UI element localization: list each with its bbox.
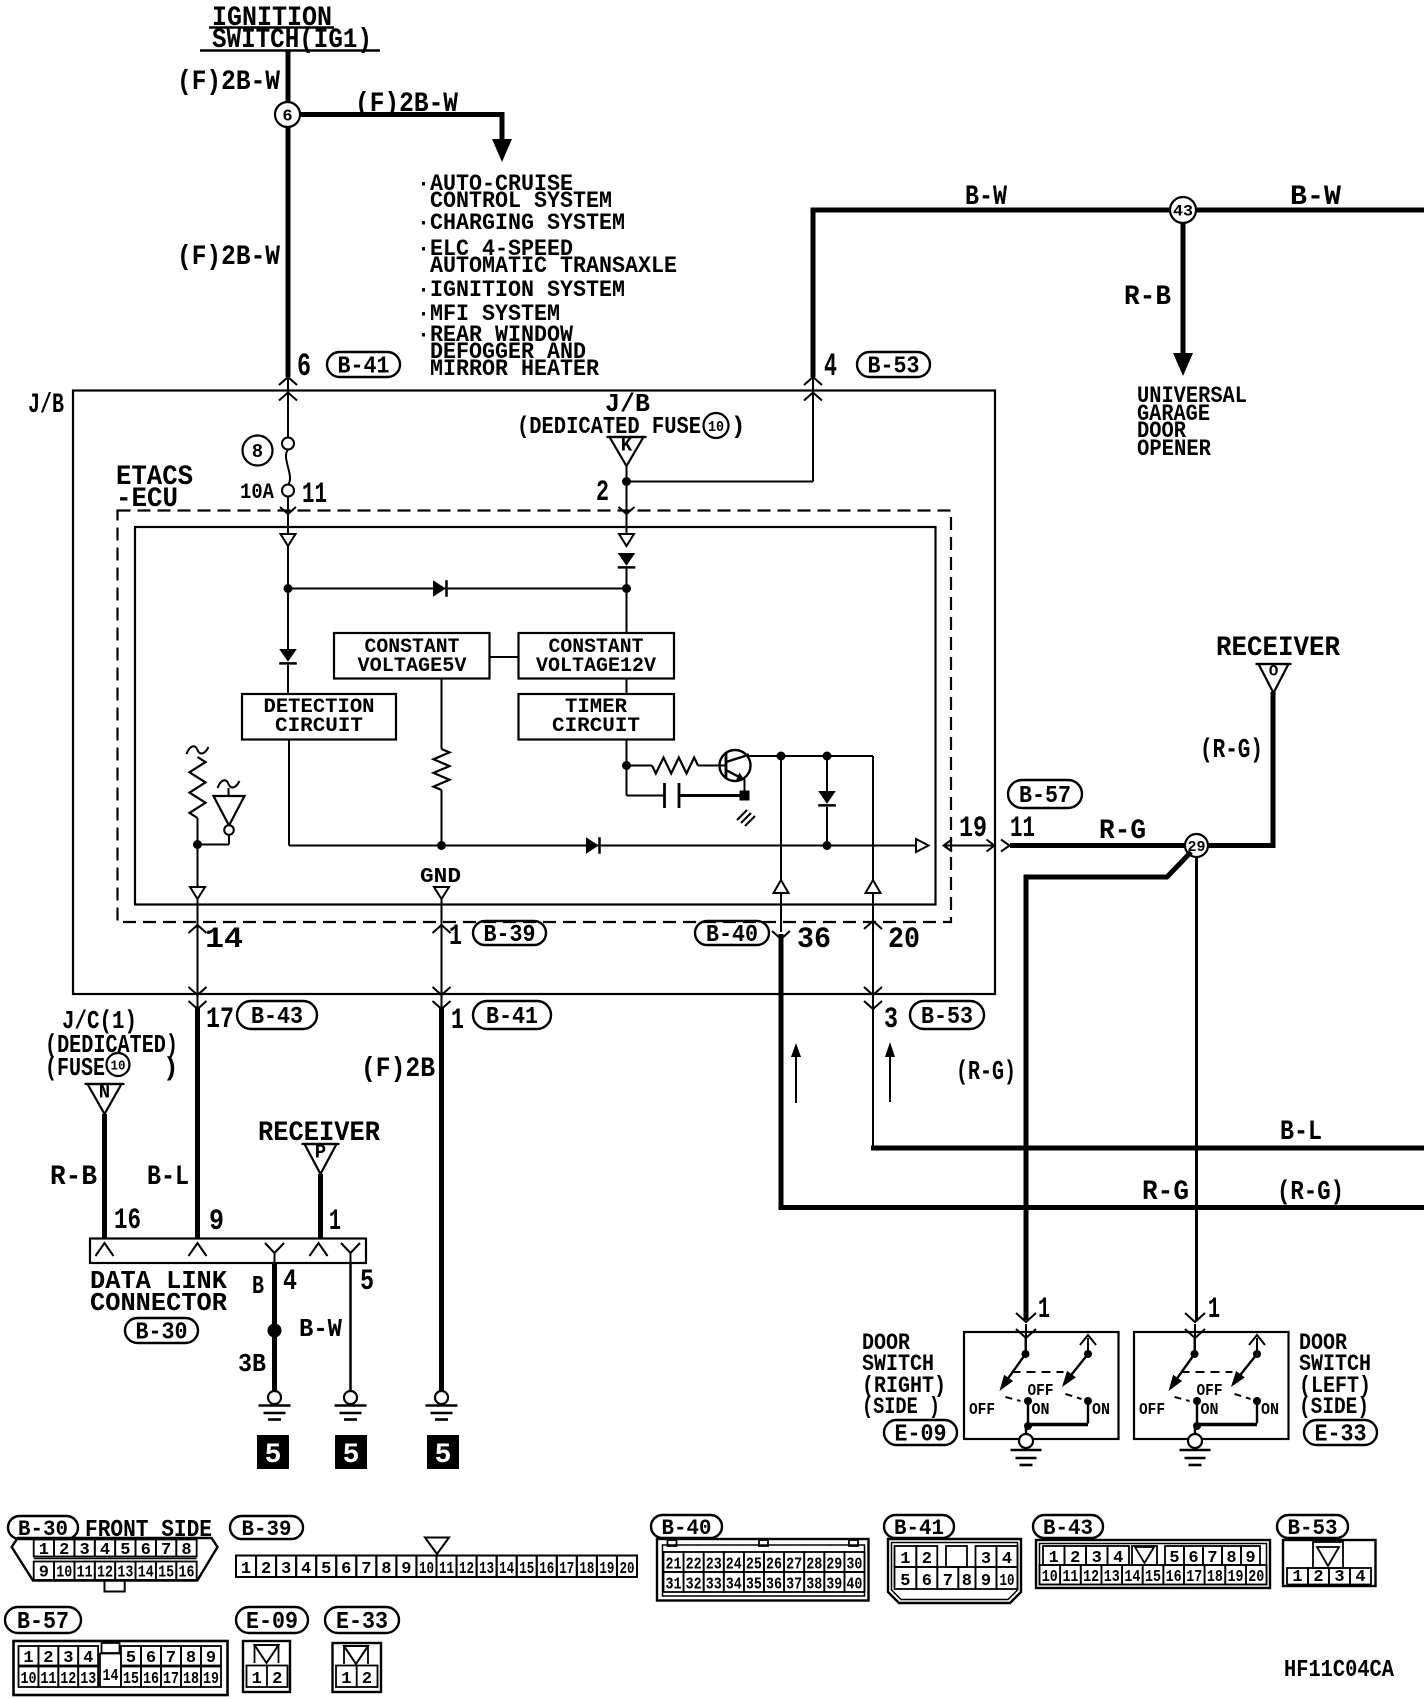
label J/B [28, 390, 64, 421]
svg-text:(F)2B-W: (F)2B-W [355, 89, 458, 120]
svg-text:CONNECTOR: CONNECTOR [90, 1288, 227, 1318]
svg-text:5: 5 [321, 1560, 331, 1579]
svg-text:P: P [315, 1142, 326, 1164]
wire Q1 collector rail [747, 755, 873, 757]
flow arrow left [791, 1043, 801, 1103]
svg-text:2: 2 [43, 1649, 53, 1668]
svg-text:12: 12 [60, 1670, 76, 1689]
svg-text:19: 19 [599, 1560, 614, 1579]
flow arrow right [885, 1042, 895, 1102]
resistor R3 [652, 758, 698, 774]
wire capacitor to emitter node [679, 794, 745, 797]
svg-text:20: 20 [619, 1560, 634, 1579]
wire node29 to receiver [1208, 692, 1276, 848]
svg-text:35: 35 [746, 1576, 762, 1595]
label DOOR SWITCH RIGHT [862, 1330, 946, 1420]
svg-text:7: 7 [166, 1649, 176, 1668]
ground reference 5 right [427, 1435, 459, 1471]
wire Q1 emitter down [744, 779, 746, 796]
diode D4 on bus [586, 837, 600, 854]
wire D5 to bus [826, 807, 828, 846]
svg-text:10: 10 [708, 419, 724, 436]
wire R-G to node 29 [1010, 843, 1185, 848]
svg-text:1: 1 [329, 1205, 341, 1239]
wire B-L corner [872, 1146, 874, 1150]
wire to comparator [228, 788, 230, 796]
coil mark left [187, 746, 209, 754]
svg-text:10: 10 [1042, 1568, 1058, 1587]
arrow R-B [1173, 353, 1193, 376]
svg-text:10A: 10A [240, 480, 275, 505]
node bus-D5 junction [823, 841, 832, 850]
label 10A [240, 480, 275, 505]
node C junction [193, 840, 202, 849]
wire fuse to ECU pin11 [280, 497, 296, 535]
svg-text:VOLTAGE5V: VOLTAGE5V [358, 655, 467, 678]
label R-B left [50, 1162, 97, 1193]
label RECEIVER bottom [258, 1118, 380, 1149]
svg-text:18: 18 [1207, 1568, 1223, 1587]
svg-text:1: 1 [39, 1541, 49, 1560]
svg-text:4: 4 [283, 1265, 297, 1299]
node fuse K junction [622, 477, 631, 486]
svg-text:9: 9 [39, 1564, 49, 1583]
block TIMER CIRCUIT [519, 694, 675, 740]
svg-text:10: 10 [111, 1058, 126, 1074]
svg-text:(F)2B: (F)2B [361, 1054, 435, 1085]
svg-text:B-57: B-57 [1019, 783, 1071, 810]
wire receiver to DLC pin1 [318, 1174, 323, 1238]
svg-text:(R-G): (R-G) [1277, 1178, 1344, 1208]
svg-text:AUTOMATIC TRANSAXLE: AUTOMATIC TRANSAXLE [430, 253, 677, 279]
svg-text:5: 5 [343, 1440, 360, 1471]
svg-text:5: 5 [900, 1572, 910, 1591]
ETACS-ECU dashed box [118, 511, 952, 923]
svg-text:1: 1 [451, 1004, 464, 1038]
svg-text:14: 14 [1124, 1568, 1140, 1587]
svg-text:14: 14 [499, 1560, 514, 1579]
svg-text:1: 1 [1292, 1568, 1302, 1587]
svg-text:ON: ON [1092, 1401, 1110, 1420]
node D junction [622, 761, 631, 770]
svg-text:2: 2 [596, 476, 609, 510]
capacitor C1 [665, 783, 680, 808]
svg-text:15: 15 [123, 1670, 139, 1689]
svg-text:B-W: B-W [299, 1314, 342, 1344]
connector ref B-43 mid [237, 1001, 317, 1031]
pin 6 entry marks [279, 377, 297, 401]
wire B-W horizontal [811, 208, 1424, 213]
svg-text:12: 12 [1083, 1568, 1099, 1587]
label IGNITION SWITCH(IG1) [200, 3, 380, 56]
node 43 splice [1170, 197, 1196, 223]
label pin 1 B-41 [451, 1004, 464, 1038]
ground dlc pin5 [335, 1391, 367, 1420]
connector pinout B-53 [1283, 1540, 1376, 1587]
terminal pin11 internal [281, 534, 296, 546]
pin 4 entry marks [804, 377, 822, 401]
svg-text:10: 10 [21, 1670, 37, 1689]
wire pin6 to fuse [287, 390, 289, 438]
svg-text:5: 5 [126, 1649, 136, 1668]
connector pinout B-40 [657, 1539, 869, 1601]
label R-B [1124, 282, 1171, 313]
svg-text:B-W: B-W [1290, 182, 1341, 213]
diode D1 left-to-right [433, 580, 447, 597]
coil mark comparator [218, 780, 240, 788]
wire dlc pin4 to ground [272, 1263, 277, 1392]
diode D5 down [818, 791, 836, 805]
label diagram code HF11C04CA [1284, 1657, 1395, 1684]
label (F)2B [361, 1054, 435, 1085]
svg-text:33: 33 [706, 1576, 722, 1595]
svg-text:B-L: B-L [147, 1162, 189, 1193]
wire node C to pin14 terminal [197, 845, 199, 888]
svg-text:9: 9 [206, 1649, 216, 1668]
wire timer to node D [626, 740, 628, 766]
svg-text:17: 17 [1186, 1568, 1202, 1587]
svg-text:OPENER: OPENER [1137, 436, 1211, 462]
connector pinout B-30 [12, 1538, 218, 1592]
label pin 6 [297, 348, 311, 385]
svg-text:31: 31 [666, 1576, 682, 1595]
wire B-L to data link [195, 1008, 200, 1238]
svg-text:2: 2 [362, 1670, 372, 1689]
wire D3 to node B [626, 568, 628, 589]
svg-text:OFF: OFF [969, 1401, 995, 1420]
svg-text:B: B [252, 1271, 264, 1301]
wire node A to node B [288, 588, 627, 590]
svg-text:36: 36 [797, 923, 831, 957]
svg-text:14: 14 [138, 1564, 154, 1583]
svg-text:11: 11 [77, 1564, 93, 1583]
pin3 B-53 exit marks [864, 987, 882, 1009]
svg-text:43: 43 [1173, 203, 1193, 221]
svg-text:6: 6 [141, 1541, 151, 1560]
connector pinout B-57 [14, 1641, 228, 1695]
svg-text:2: 2 [59, 1541, 69, 1560]
junction block J/B box [73, 391, 995, 995]
label pin 11 B-57 [1010, 812, 1035, 846]
label R-G vertical wire [1142, 1177, 1189, 1208]
svg-text:17: 17 [206, 1003, 234, 1037]
svg-text:19: 19 [959, 812, 987, 846]
svg-text:11: 11 [302, 478, 327, 512]
connector ref E-09 bottom [236, 1607, 308, 1636]
svg-text:11: 11 [40, 1670, 56, 1689]
node 29 splice [1185, 834, 1208, 857]
wire R-G horizontal [779, 1205, 1424, 1210]
label DATA LINK CONNECTOR [90, 1266, 227, 1318]
label systems list [417, 171, 677, 382]
svg-text:13: 13 [1104, 1568, 1120, 1587]
dlc pin16 terminal [96, 1243, 114, 1256]
svg-text:OFF: OFF [1028, 1382, 1054, 1401]
label UNIVERSAL GARAGE DOOR OPENER [1137, 383, 1247, 462]
arrow to systems list [492, 139, 512, 162]
label B-L left [147, 1162, 189, 1193]
wire door switch right entry marks [1016, 1313, 1036, 1354]
svg-text:(F)2B-W: (F)2B-W [177, 67, 280, 98]
svg-text:B-40: B-40 [706, 922, 758, 949]
wire comparator to node C [198, 835, 230, 845]
wire branch to systems [300, 112, 504, 142]
svg-text:16: 16 [143, 1670, 159, 1689]
label fuse circled 8 [243, 436, 273, 466]
svg-text:16: 16 [178, 1564, 194, 1583]
svg-text:B-L: B-L [1280, 1117, 1322, 1148]
svg-text:CIRCUIT: CIRCUIT [275, 715, 363, 738]
resistor R2 [434, 749, 450, 790]
svg-text:·CHARGING SYSTEM: ·CHARGING SYSTEM [417, 210, 625, 236]
svg-text:10: 10 [419, 1560, 434, 1579]
svg-text:11: 11 [1062, 1568, 1078, 1587]
svg-text:(SIDE): (SIDE) [1299, 1394, 1369, 1420]
svg-text:3: 3 [281, 1560, 291, 1579]
svg-text:B-41: B-41 [486, 1004, 538, 1031]
svg-text:6: 6 [146, 1649, 156, 1668]
svg-text:ON: ON [1261, 1401, 1279, 1420]
svg-text:20: 20 [1248, 1568, 1264, 1587]
wire pin11 to node A [287, 546, 289, 589]
label pin 1 right door [1038, 1293, 1050, 1327]
terminal GND internal [434, 887, 449, 899]
svg-text:(F)2B-W: (F)2B-W [177, 242, 280, 273]
svg-text:39: 39 [826, 1576, 842, 1595]
svg-text:15: 15 [1145, 1568, 1161, 1587]
wire node D to resistor R3 [627, 765, 653, 767]
connector ref B-53 mid [910, 1001, 984, 1031]
svg-text:1: 1 [1038, 1293, 1050, 1327]
svg-text:8: 8 [381, 1560, 391, 1579]
wire R2 to bus [441, 790, 443, 846]
svg-text:4: 4 [100, 1541, 110, 1560]
wire dlc pin5 to ground [349, 1263, 352, 1392]
data link connector box [90, 1239, 366, 1264]
label pin 4 [824, 348, 837, 385]
wire pin19 jumper [944, 840, 1010, 852]
svg-text:E-33: E-33 [336, 1609, 388, 1636]
connector ref B-41 bottom [884, 1515, 954, 1541]
label (R-G) receiver [1200, 736, 1263, 766]
dlc pin9 terminal [189, 1243, 207, 1256]
svg-text:4: 4 [824, 348, 837, 385]
svg-text:B-41: B-41 [894, 1516, 944, 1541]
svg-text:15: 15 [158, 1564, 174, 1583]
label pin 4 dlc [283, 1265, 297, 1299]
label B-W wire [299, 1314, 342, 1344]
wire B-W riser in J/B [812, 390, 814, 482]
svg-text:GND: GND [420, 866, 461, 889]
node 6 splice [275, 102, 300, 127]
diode D2 down [279, 649, 297, 663]
svg-text:9: 9 [981, 1572, 991, 1591]
label ETACS-ECU [116, 462, 193, 515]
label pin 9 [209, 1205, 224, 1239]
svg-text:3B: 3B [238, 1349, 266, 1379]
svg-text:3: 3 [884, 1003, 898, 1037]
connector ref B-39 bottom [230, 1516, 303, 1542]
connector ref B-40 bottom [651, 1515, 722, 1541]
terminal pin2 internal [619, 534, 634, 546]
wire collector rail corner to pin20 terminal [872, 756, 874, 880]
svg-text:40: 40 [846, 1576, 862, 1595]
wire ignition feed lower [286, 127, 291, 377]
label FRONT SIDE [85, 1517, 212, 1544]
label B-W left [965, 182, 1007, 213]
dlc pin4 terminal [265, 1243, 284, 1263]
receiver antenna P [302, 1142, 340, 1174]
ground (F)2B wire [426, 1391, 458, 1420]
svg-text:5: 5 [265, 1440, 282, 1471]
svg-text:38: 38 [806, 1576, 822, 1595]
svg-text:O: O [1269, 663, 1279, 681]
wire R3 to transistor base [698, 765, 726, 767]
label pin 2 [596, 476, 609, 510]
door switch right side [964, 1332, 1119, 1465]
label DOOR SWITCH LEFT [1299, 1330, 1371, 1420]
svg-text:R-B: R-B [1124, 282, 1171, 313]
svg-text:6: 6 [297, 348, 311, 385]
svg-text:E-09: E-09 [246, 1609, 298, 1636]
svg-text:15: 15 [519, 1560, 534, 1579]
ground reference 5 mid [335, 1435, 367, 1471]
label pin 5 dlc [360, 1265, 374, 1299]
svg-text:14: 14 [205, 923, 243, 957]
svg-text:OFF: OFF [1139, 1401, 1165, 1420]
block CONSTANT VOLTAGE12V [519, 633, 675, 679]
receiver antenna O [1256, 663, 1292, 693]
connector ref B-41 top [327, 352, 400, 381]
label (F)2B-W branch [355, 89, 458, 120]
svg-text:8: 8 [962, 1572, 972, 1591]
label (R-G) mid [956, 1058, 1016, 1088]
svg-text:8: 8 [181, 1541, 191, 1560]
wire detection circuit to bus [288, 740, 290, 846]
svg-text:B-53: B-53 [921, 1004, 973, 1031]
label pin 14 [205, 923, 243, 957]
label pin 3 [884, 1003, 898, 1037]
wire (F)2B to ground [439, 1008, 444, 1392]
connector ref B-57 bottom [5, 1607, 81, 1636]
svg-text:(SIDE ): (SIDE ) [862, 1394, 940, 1420]
wire output bus [289, 845, 917, 847]
svg-text:3: 3 [80, 1541, 90, 1560]
svg-text:B-30: B-30 [136, 1320, 188, 1347]
svg-text:10: 10 [56, 1564, 72, 1583]
svg-text:·IGNITION SYSTEM: ·IGNITION SYSTEM [417, 277, 625, 303]
label pin 19 [959, 812, 987, 846]
node splice 3B [268, 1324, 282, 1338]
terminal pin20 internal [866, 880, 881, 893]
label (F)2B-W lower [177, 242, 280, 273]
terminal pin14 internal [190, 887, 205, 899]
connector pinout E-33 [333, 1643, 382, 1692]
wire node A down [287, 589, 289, 650]
svg-text:2: 2 [261, 1560, 271, 1579]
svg-text:1: 1 [341, 1670, 351, 1689]
wire node F to diode D5 [826, 756, 828, 791]
wire B-L horizontal [871, 1146, 1424, 1151]
svg-text:10: 10 [1000, 1572, 1015, 1591]
label R-G [1099, 816, 1146, 847]
svg-text:37: 37 [786, 1576, 802, 1595]
svg-text:34: 34 [726, 1576, 742, 1595]
svg-text:B-57: B-57 [17, 1609, 69, 1636]
diode D3 down [618, 553, 636, 567]
wire D2 to detection circuit [287, 664, 289, 694]
bus open arrow [916, 839, 929, 852]
svg-text:13: 13 [80, 1670, 96, 1689]
svg-text:2: 2 [1313, 1568, 1323, 1587]
svg-text:1: 1 [23, 1649, 33, 1668]
wire node E to pin36 terminal [780, 756, 782, 880]
node E junction [777, 752, 786, 761]
svg-text:5: 5 [435, 1440, 452, 1471]
fuse N tap [85, 1082, 125, 1114]
svg-text:B-41: B-41 [338, 354, 390, 381]
label (R-G) right [1277, 1178, 1344, 1208]
svg-text:4: 4 [83, 1649, 93, 1668]
svg-text:ON: ON [1032, 1401, 1050, 1420]
svg-text:E-33: E-33 [1315, 1422, 1367, 1449]
label J/B dedicated fuse [517, 389, 745, 441]
ground dlc pin4 [259, 1391, 291, 1420]
svg-text:): ) [731, 414, 745, 441]
svg-text:7: 7 [943, 1572, 953, 1591]
svg-text:B-W: B-W [965, 182, 1007, 213]
label pin 17 [206, 1003, 234, 1037]
wire pin36 exit [772, 893, 790, 1207]
transistor Q1 [720, 750, 751, 782]
wire CV5V to CV12V link [490, 656, 519, 658]
wire R-B to DLC pin16 [102, 1114, 107, 1238]
label pin 1 B-39 [449, 920, 462, 954]
wire CV12V to timer [626, 679, 628, 695]
label pin 16 [114, 1204, 141, 1238]
connector ref B-43 bottom [1033, 1515, 1103, 1541]
svg-text:B-43: B-43 [1043, 1516, 1093, 1541]
node emitter junction [740, 791, 750, 801]
svg-text:VOLTAGE12V: VOLTAGE12V [536, 655, 656, 678]
svg-text:(FUSE: (FUSE [45, 1053, 105, 1083]
connector ref B-39 [473, 921, 546, 949]
svg-text:RECEIVER: RECEIVER [1216, 633, 1340, 664]
connector ref E-09 [884, 1420, 957, 1449]
wire B-W corner down [811, 208, 816, 377]
node B junction [622, 584, 631, 593]
wire R-B to garage opener [1181, 223, 1186, 354]
svg-text:-ECU: -ECU [116, 484, 178, 515]
svg-text:16: 16 [114, 1204, 141, 1238]
ECU inner box [135, 527, 936, 905]
svg-text:19: 19 [1228, 1568, 1244, 1587]
label RECEIVER top [1216, 633, 1340, 664]
ground Q1 emitter [737, 810, 755, 826]
label pin 36 [797, 923, 831, 957]
svg-text:17: 17 [559, 1560, 574, 1579]
dlc pin1 terminal [310, 1243, 328, 1256]
svg-text:8: 8 [186, 1649, 196, 1668]
svg-text:5: 5 [360, 1265, 374, 1299]
svg-text:CIRCUIT: CIRCUIT [552, 715, 640, 738]
svg-text:4: 4 [301, 1560, 311, 1579]
wire pin1 exit [433, 899, 451, 994]
block CONSTANT VOLTAGE5V [334, 633, 490, 679]
label pin 20 [888, 923, 920, 957]
label GND [420, 866, 461, 889]
svg-text:17: 17 [163, 1670, 179, 1689]
